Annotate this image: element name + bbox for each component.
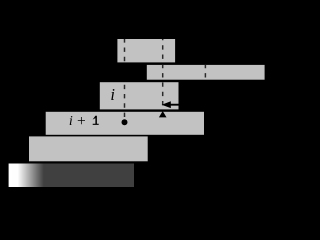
bar row6 faded	[9, 164, 134, 188]
svg-text:i: i	[110, 85, 115, 104]
dashed line x3	[204, 65, 206, 80]
bar row4 window i+1	[46, 112, 204, 135]
left arrow	[170, 104, 180, 106]
bar row5	[29, 136, 148, 161]
dot marker	[122, 119, 128, 125]
svg-text:i: i	[69, 114, 73, 129]
triangle marker	[159, 111, 167, 117]
dashed line x2	[162, 36, 164, 109]
dashed line x1	[124, 38, 126, 118]
bar row3 window i	[100, 82, 179, 109]
svg-text:+: +	[77, 113, 86, 130]
bar row1 top	[117, 39, 175, 62]
bar row2	[147, 65, 265, 80]
